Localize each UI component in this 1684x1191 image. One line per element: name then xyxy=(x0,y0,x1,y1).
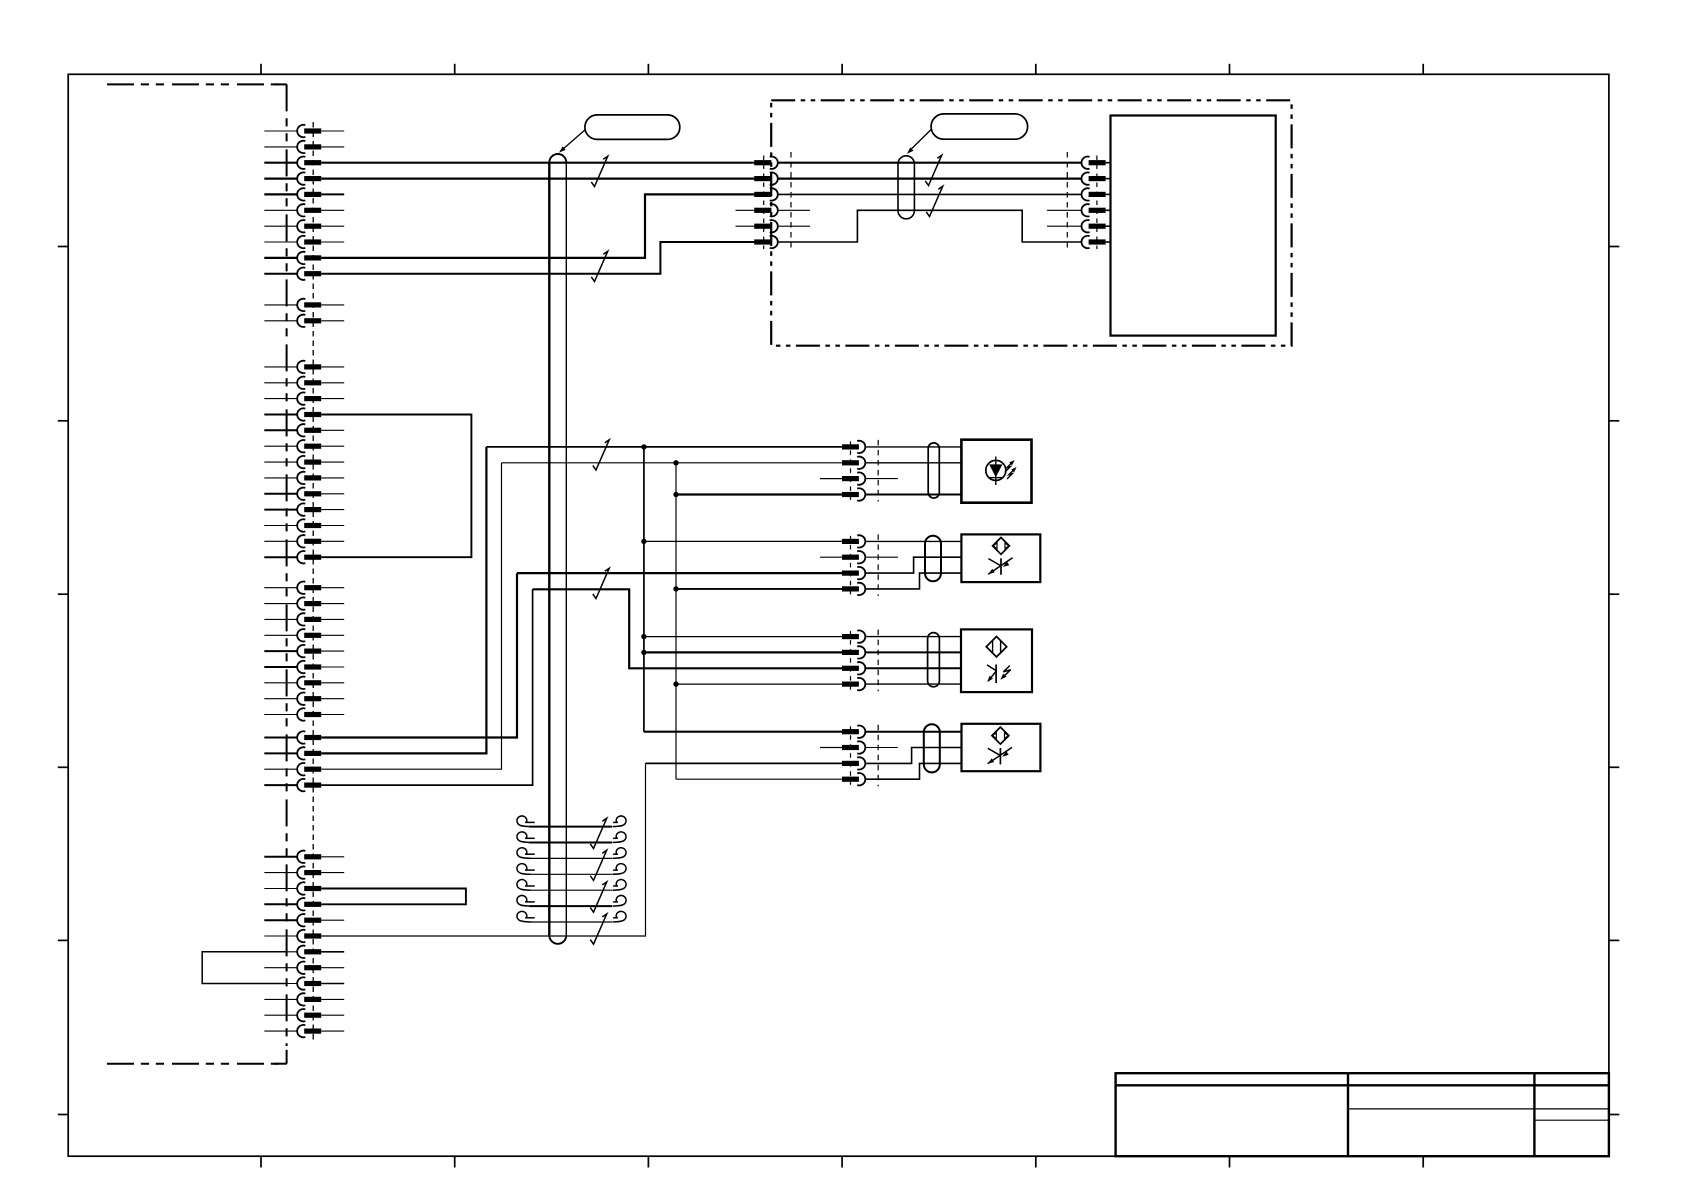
connector X22 centerline xyxy=(850,536,852,595)
connector J1 pin 12 xyxy=(264,320,297,322)
border tick xyxy=(454,64,456,75)
wire J1-27 riser xyxy=(321,447,486,754)
connector P3 centerline xyxy=(1096,156,1098,250)
stub P3-5 xyxy=(1047,225,1082,227)
wire bus to B22 pin1 xyxy=(644,540,842,542)
stub P3-4 xyxy=(1047,209,1082,211)
border tick xyxy=(1035,64,1037,75)
label balloon W2 xyxy=(931,114,1028,139)
cable marker B22 xyxy=(925,536,941,582)
border tick xyxy=(841,1156,843,1167)
connector J1 pin 41 xyxy=(264,888,297,890)
wire X21-1 to B21 xyxy=(865,446,961,448)
connector X23 centerline xyxy=(850,631,852,690)
stub B21 pin3 xyxy=(820,478,842,480)
connector X21 pin 2 xyxy=(842,460,859,465)
connector J1 pin 4 xyxy=(264,178,297,180)
border tick xyxy=(1609,1114,1619,1116)
connector J1 pin 22 xyxy=(264,509,297,511)
border tick xyxy=(1609,593,1619,595)
connector J1 pin 31 xyxy=(264,666,297,668)
cable marker B21 xyxy=(928,443,939,498)
wire X22-3 to B22 xyxy=(865,557,961,573)
connector group bracket B3 xyxy=(202,952,286,984)
lightning arrow xyxy=(1003,666,1011,678)
connector J1 pin 27 xyxy=(264,603,297,605)
connector X22 mating line xyxy=(877,534,879,596)
wire net 3: J1-9 to P2-3 xyxy=(321,194,754,258)
connector X23 mating line xyxy=(877,630,879,692)
connector J1 pin 8 xyxy=(264,241,297,243)
connector P2 pin 2 (left side) xyxy=(754,176,771,181)
connector J1 pin 24 xyxy=(264,540,297,542)
connector J1 pin 25 xyxy=(264,556,297,558)
wire shield riser to B24 pin3 xyxy=(646,762,843,764)
connector X24 mating line xyxy=(877,725,879,787)
connector J1 pin 18 xyxy=(264,445,297,447)
border tick xyxy=(1609,420,1619,422)
connector J1 pin 49 xyxy=(264,1014,297,1016)
connector J1 pin 15 xyxy=(264,398,297,400)
connector P3 pin 5 (right side) xyxy=(1081,220,1089,232)
border tick xyxy=(1609,246,1619,248)
connector J1 pin 46 xyxy=(264,967,297,969)
junction xyxy=(641,539,646,544)
wire return bus to B24 pin4 xyxy=(676,778,842,780)
wire X22-1 to B22 xyxy=(865,540,961,542)
connector J1 pin 9 xyxy=(264,257,297,259)
shield marker S3 xyxy=(925,155,941,185)
connector P2 pin 1 (left side) xyxy=(754,160,771,165)
connector group bracket B1 (pins 16-25) xyxy=(321,415,471,558)
wire P2-3 to P3-3 xyxy=(778,193,1082,195)
sensor B21 (emitter) box xyxy=(961,440,1031,503)
connector J1 pin 6 xyxy=(264,209,297,211)
connector X23 pin 3 xyxy=(842,666,859,671)
wire bus to B22 pin3 xyxy=(517,572,842,574)
harness boundary phantom line xyxy=(107,83,287,85)
wire bus to B21 pin1 xyxy=(486,446,842,448)
connector J1 pin 48 xyxy=(264,998,297,1000)
connector J1 pin 13 xyxy=(264,366,297,368)
B24 symbol xyxy=(992,727,1009,744)
connector J1 pin 26 xyxy=(264,587,297,589)
connector J1 pin 42 xyxy=(264,903,297,905)
border tick xyxy=(454,1156,456,1167)
connector P3 pin 1 (right side) xyxy=(1081,157,1089,169)
wire bus to B23 pin1 xyxy=(644,636,842,638)
spare coiled wire 7 xyxy=(530,921,613,923)
sensor B23 (receiver) box xyxy=(961,629,1032,692)
border tick xyxy=(1229,64,1231,75)
label balloon W1 xyxy=(585,115,680,139)
sensor B22 box xyxy=(961,534,1040,582)
shield marker S4 xyxy=(926,186,942,216)
LED symbol B21 xyxy=(986,460,1006,480)
connector P2 pin 3 (left side) xyxy=(754,192,771,197)
shield marker S8 xyxy=(590,850,606,880)
shield riser xyxy=(321,763,645,936)
wire bus to B23 pin4 xyxy=(676,683,842,685)
title block column divider 2 xyxy=(1533,1073,1535,1156)
spare coiled wire 3 xyxy=(530,857,613,859)
connector P2 pin 4 (left side) xyxy=(754,208,771,213)
wire net 2: J1-4 to P2-2 xyxy=(321,178,754,180)
connector X24 pin 4 xyxy=(842,777,859,782)
cable marker W2 capsule xyxy=(898,156,914,219)
connector P3 mating line xyxy=(1066,152,1068,252)
connector P2 centerline xyxy=(763,156,765,250)
spare coiled wire 4 xyxy=(530,873,613,875)
connector X24 pin 3 xyxy=(842,761,859,766)
connector J1 pin 14 xyxy=(264,382,297,384)
border tick xyxy=(58,246,68,248)
spare coiled wire 6 xyxy=(530,905,613,907)
return bus xyxy=(675,463,677,779)
connector X24 pin 2 xyxy=(842,745,859,750)
connector J1 pin 19 xyxy=(264,461,297,463)
connector J1 pin 17 xyxy=(264,429,297,431)
wire X23-4 to B23 xyxy=(865,683,961,685)
cable marker B24 xyxy=(924,724,940,772)
spare coiled wire 1 xyxy=(530,826,613,828)
connector J1 pin 2 xyxy=(264,146,297,148)
junction xyxy=(641,650,646,655)
border tick xyxy=(58,1114,68,1116)
connector X21 pin 3 xyxy=(842,476,859,481)
wire bus to B24 pin1 xyxy=(644,731,842,733)
wire X23-1 to B23 xyxy=(865,636,961,638)
connector J1 pin 45 xyxy=(264,951,297,953)
junction xyxy=(641,634,646,639)
connector J1 pin 11 xyxy=(264,304,297,306)
wire J1-29 riser xyxy=(321,589,532,785)
connector J1 pin 38 xyxy=(264,784,297,786)
connector J1 pin 44 xyxy=(264,935,297,937)
cable marker B23 xyxy=(928,633,940,687)
ECU internal module xyxy=(1111,116,1276,336)
connector J1 pin 35 xyxy=(264,737,297,739)
connector J1 centerline xyxy=(312,122,314,1040)
connector J1 pin 5 xyxy=(264,193,297,195)
wire P2-2 to P3-2 xyxy=(778,178,1082,180)
border tick xyxy=(260,64,262,75)
ECU enclosure (phantom box) xyxy=(771,100,1291,345)
title block frame xyxy=(1116,1073,1609,1156)
wire X24-1 to B24 xyxy=(865,731,961,733)
connector group bracket B2 xyxy=(321,889,466,905)
connector P2 mating line xyxy=(790,152,792,252)
connector J1 pin 3 xyxy=(264,162,297,164)
connector J1 pin 50 xyxy=(264,1030,297,1032)
title block row rule 2 xyxy=(1534,1119,1609,1121)
border tick xyxy=(841,64,843,75)
connector J1 pin 36 xyxy=(264,752,297,754)
connector P2 pin 5 (left side) xyxy=(754,224,771,229)
connector X21 pin 4 xyxy=(842,492,859,497)
connector X24 centerline xyxy=(850,726,852,785)
wire P2-1 to P3-1 xyxy=(778,162,1082,164)
wire X22-4 to B22 xyxy=(865,573,961,589)
border tick xyxy=(1422,1156,1424,1167)
junction xyxy=(673,492,678,497)
wire bus to B23 pin3 (stepped) xyxy=(533,589,842,668)
sensor B24 box xyxy=(962,724,1041,771)
bracket row stub xyxy=(321,983,344,985)
leader arrow to W2 xyxy=(910,130,931,151)
connector X22 pin 4 xyxy=(842,586,859,591)
title block header rule xyxy=(1116,1084,1609,1086)
emission arrows xyxy=(1005,462,1012,472)
stub B22 pin2 xyxy=(820,556,842,558)
shield marker S6 xyxy=(593,568,609,598)
wire bus to B21 pin4 xyxy=(676,493,842,495)
connector J1 pin 47 xyxy=(264,983,297,985)
connector J1 pin 39 xyxy=(264,856,297,858)
shield marker S2 xyxy=(591,251,607,281)
border tick xyxy=(1609,766,1619,768)
border tick xyxy=(58,939,68,941)
wire X24-3 to B24 xyxy=(865,748,961,764)
connector J1 pin 20 xyxy=(264,477,297,479)
connector X24 pin 1 xyxy=(842,729,859,734)
connector X22 pin 1 xyxy=(842,539,859,544)
connector X21 centerline xyxy=(850,441,852,500)
connector J1 pin 16 xyxy=(264,414,297,416)
wire J1-26 riser xyxy=(321,573,517,737)
connector J1 pin 28 xyxy=(264,618,297,620)
connector J1 pin 34 xyxy=(264,714,297,716)
connector J1 pin 23 xyxy=(264,525,297,527)
wire bus to B21 pin2 xyxy=(502,462,843,464)
connector P2 pin 6 (left side) xyxy=(754,239,771,244)
connector X22 pin 3 xyxy=(842,571,859,576)
wire bus to B22 pin4 xyxy=(676,588,842,590)
connector X23 pin 2 xyxy=(842,650,859,655)
wire X24-4 to B24 xyxy=(865,763,961,779)
spare coiled wire 2 xyxy=(530,842,613,844)
connector J1 pin 7 xyxy=(264,225,297,227)
connector X23 pin 4 xyxy=(842,682,859,687)
connector J1 pin 10 xyxy=(264,273,297,275)
connector P3 pin 2 (right side) xyxy=(1081,172,1089,184)
supply bus xyxy=(643,447,645,732)
wire P2-6 to P3-6 xyxy=(778,210,1082,242)
connector P3 pin 6 (right side) xyxy=(1081,236,1089,248)
connector P3 pin 3 (right side) xyxy=(1081,188,1089,200)
title block row rule xyxy=(1348,1108,1609,1110)
wire X21-4 to B21 xyxy=(865,494,961,496)
connector X21 pin 1 xyxy=(842,444,859,449)
border tick xyxy=(58,593,68,595)
wire net 1: J1-3 to P2-1 xyxy=(321,162,754,164)
cable shield W1 xyxy=(548,163,550,936)
leader arrow to W1 xyxy=(563,130,585,150)
connector J1 pin 40 xyxy=(264,872,297,874)
shield marker S7 xyxy=(590,818,606,848)
border tick xyxy=(647,64,649,75)
wire bus to B23 pin2 xyxy=(644,651,842,653)
shield marker S5 xyxy=(593,440,609,470)
border tick xyxy=(58,766,68,768)
connector J1 pin 30 xyxy=(264,650,297,652)
title block column divider 1 xyxy=(1347,1073,1349,1156)
connector J1 pin 33 xyxy=(264,698,297,700)
stub B24 pin2 xyxy=(820,747,842,749)
wire J1-28 riser xyxy=(321,463,501,769)
bracket row stub xyxy=(321,951,344,953)
shield marker S10 xyxy=(590,914,606,944)
border tick xyxy=(1422,64,1424,75)
connector P3 pin 4 (right side) xyxy=(1081,204,1089,216)
wire X23-3 to B23 xyxy=(865,667,961,669)
shield marker S9 xyxy=(590,882,606,912)
border tick xyxy=(58,420,68,422)
connector J1 pin 43 xyxy=(264,919,297,921)
connector J1 pin 21 xyxy=(264,493,297,495)
wire net 4: J1-10 to P2-6 xyxy=(321,242,754,274)
junction xyxy=(673,586,678,591)
connector J1 pin 1 xyxy=(264,130,297,132)
border tick xyxy=(647,1156,649,1167)
connector J1 pin 37 xyxy=(264,768,297,770)
border tick xyxy=(260,1156,262,1167)
connector X23 pin 1 xyxy=(842,634,859,639)
wire X21-2 to B21 xyxy=(865,462,961,464)
junction xyxy=(641,444,646,449)
shield marker S1 xyxy=(591,156,607,186)
connector X21 mating line xyxy=(877,440,879,502)
junction xyxy=(673,681,678,686)
connector X22 pin 2 xyxy=(842,555,859,560)
B23 symbol xyxy=(986,637,1006,657)
border tick xyxy=(1035,1156,1037,1167)
connector J1 pin 32 xyxy=(264,682,297,684)
B22 symbol xyxy=(993,538,1010,555)
border tick xyxy=(1229,1156,1231,1167)
border tick xyxy=(1609,939,1619,941)
wire X23-2 to B23 xyxy=(865,651,961,653)
connector J1 pin 29 xyxy=(264,634,297,636)
spare coiled wire 5 xyxy=(530,889,613,891)
junction xyxy=(673,460,678,465)
